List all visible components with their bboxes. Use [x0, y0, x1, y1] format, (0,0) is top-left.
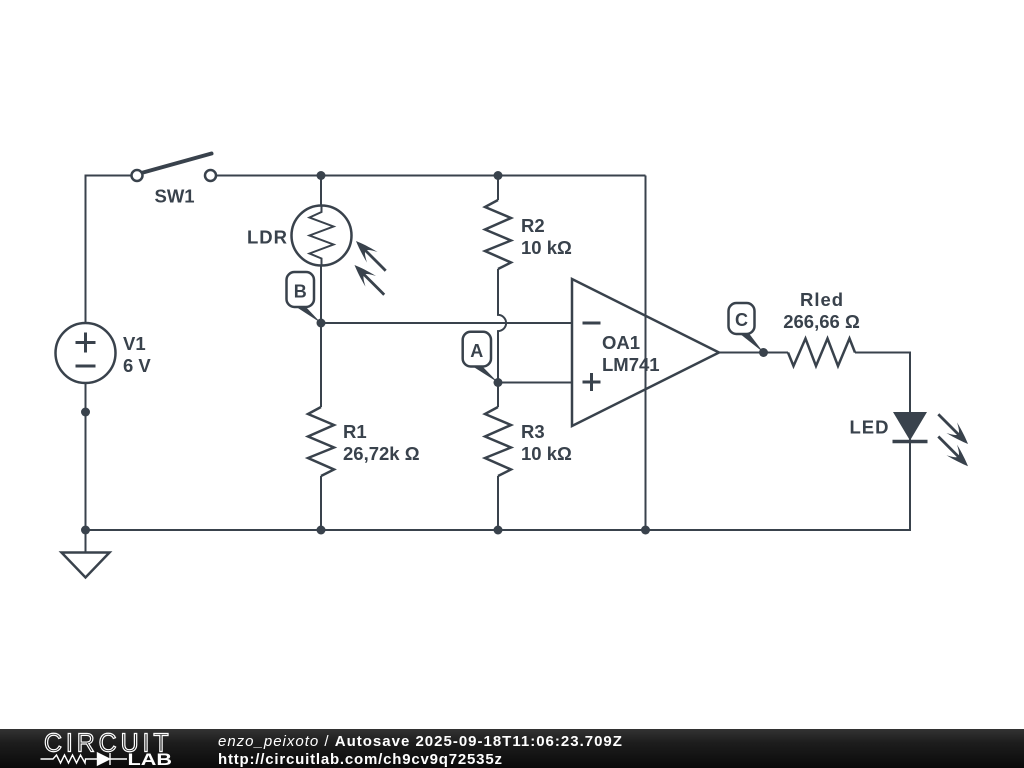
resistor Rled 266,66 ohm — [783, 289, 860, 366]
svg-text:10 kΩ: 10 kΩ — [521, 443, 572, 464]
wire: Rled to right rail, down and along bottom rail — [86, 353, 911, 531]
svg-text:A: A — [470, 341, 483, 361]
svg-text:LM741: LM741 — [602, 354, 660, 375]
footer bar — [0, 729, 1024, 768]
LED light arrow 1 — [933, 409, 973, 449]
svg-text:26,72k Ω: 26,72k Ω — [343, 443, 420, 464]
svg-text:B: B — [294, 282, 307, 302]
svg-text:http://circuitlab.com/ch9cv9q7: http://circuitlab.com/ch9cv9q72535z — [218, 751, 503, 768]
svg-text:6 V: 6 V — [123, 355, 151, 376]
svg-text:enzo_peixoto / Autosave 2025-0: enzo_peixoto / Autosave 2025-09-18T11:06… — [218, 733, 623, 750]
wire: top-left corner rail from switch to V1 top — [86, 176, 132, 324]
junction bottom rail at R1 column — [317, 526, 326, 535]
node C junction — [759, 348, 768, 357]
photoresistor LDR — [247, 206, 352, 266]
wire: R2 column top lead — [497, 176, 499, 201]
svg-text:LAB: LAB — [128, 751, 173, 768]
node A junction — [494, 378, 503, 387]
LED diode — [850, 412, 928, 442]
svg-text:OA1: OA1 — [602, 332, 640, 353]
node B junction — [317, 319, 326, 328]
op-amp OA1 LM741 — [572, 279, 719, 426]
node B wire to op-amp inverting input — [321, 322, 572, 324]
svg-text:R1: R1 — [343, 421, 367, 442]
wire: supply rail down right side of schematic through op-amp — [645, 176, 647, 531]
junction bottom rail at ground — [81, 526, 90, 535]
logo resistor-diode glyph — [41, 753, 128, 765]
node label C — [729, 303, 764, 353]
svg-text:C: C — [735, 310, 748, 330]
junction top rail at R2 column — [494, 171, 503, 180]
junction bottom rail at R3 column — [494, 526, 503, 535]
svg-text:266,66 Ω: 266,66 Ω — [783, 311, 860, 332]
node label B — [287, 272, 322, 323]
wire: R2 bottom lead with hop over node-B wire, down to node A — [498, 269, 506, 383]
svg-text:R3: R3 — [521, 421, 545, 442]
svg-text:R2: R2 — [521, 215, 545, 236]
voltage source V1 6 V — [56, 323, 152, 383]
switch SW1 — [132, 154, 217, 207]
LED light arrow 2 — [933, 431, 973, 471]
junction bottom rail at supply column — [641, 526, 650, 535]
resistor R2 10 kohm — [485, 200, 572, 269]
junction below V1 — [81, 408, 90, 417]
svg-text:V1: V1 — [123, 333, 146, 354]
resistor R3 10 kohm — [485, 383, 572, 531]
svg-text:LED: LED — [850, 417, 890, 438]
LDR light arrow 2 — [349, 260, 389, 300]
junction top rail at LDR column — [317, 171, 326, 180]
node label A — [463, 332, 498, 383]
LDR light arrow 1 — [351, 236, 391, 276]
svg-text:Rled: Rled — [800, 289, 844, 310]
wire: LDR bottom lead to node B — [320, 266, 322, 324]
wire: LDR column top lead — [320, 176, 322, 207]
wire: top rail from switch to top-right corner and down to bottom rail — [216, 175, 646, 177]
wire: V1 bottom lead to bottom rail — [85, 383, 87, 530]
svg-text:10 kΩ: 10 kΩ — [521, 237, 572, 258]
resistor R1 26,72k ohm — [308, 323, 420, 530]
wire: op-amp output to Rled — [718, 352, 788, 354]
svg-text:SW1: SW1 — [155, 186, 195, 207]
node A wire to op-amp non-inverting input — [498, 382, 572, 384]
ground — [62, 530, 110, 578]
svg-text:LDR: LDR — [247, 227, 288, 248]
